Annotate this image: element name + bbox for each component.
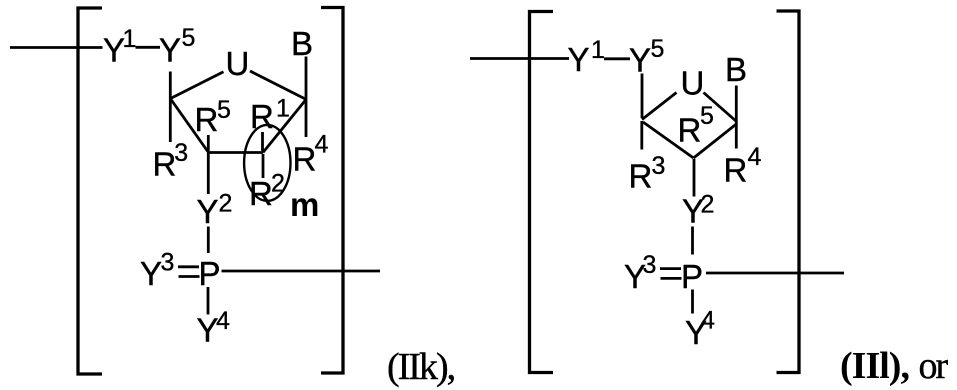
- svg-text:5: 5: [217, 96, 231, 124]
- svg-text:B: B: [725, 51, 747, 88]
- wire: bond B-C1'-R4 (structure 2): [735, 86, 738, 149]
- svg-text:1: 1: [591, 36, 605, 64]
- wire: bond C3'-Y2 (structure 2): [693, 159, 696, 197]
- atom label R5: [195, 96, 231, 138]
- atom label R5 (structure 2): [678, 102, 714, 148]
- atom label Y2 (structure 2): [682, 191, 714, 230]
- svg-text:Y: Y: [159, 32, 181, 69]
- svg-text:3: 3: [161, 248, 175, 276]
- atom label Y4: [197, 307, 231, 348]
- atom label Y2: [197, 190, 233, 230]
- svg-text:2: 2: [271, 169, 285, 197]
- atom label R3 (structure 2): [629, 152, 666, 195]
- svg-text:(IIk),: (IIk),: [387, 346, 455, 388]
- svg-text:2: 2: [701, 191, 715, 219]
- atom label R2: [249, 169, 285, 212]
- svg-text:R: R: [249, 175, 273, 212]
- svg-text:or: or: [919, 345, 949, 387]
- wire: ring bond C3'-C2': [208, 151, 263, 154]
- wire: bond C2'-R1: [261, 132, 264, 151]
- wire: bond C2'-R2: [262, 154, 265, 178]
- wire: ring bond C4'-C3' (structure 2): [643, 122, 694, 158]
- wire: bond C3'-Y2: [207, 153, 210, 194]
- svg-text:3: 3: [174, 139, 188, 167]
- svg-text:B: B: [291, 25, 313, 62]
- svg-text:Y: Y: [140, 255, 162, 292]
- wire: bond P-Y4: [207, 287, 210, 315]
- left bracket of formula IIk: [78, 8, 102, 374]
- atom label Y5 (structure 2): [629, 35, 664, 78]
- svg-text:R: R: [293, 140, 317, 177]
- wire: double bond Y3=P: [178, 267, 200, 277]
- svg-text:4: 4: [748, 143, 762, 171]
- svg-text:Y: Y: [197, 193, 219, 230]
- svg-text:Y: Y: [568, 41, 590, 78]
- wire: bond Y5-C4': [169, 72, 172, 99]
- svg-text:3: 3: [643, 251, 657, 279]
- svg-text:1: 1: [123, 25, 137, 53]
- svg-text:Y: Y: [629, 41, 651, 78]
- atom label Y1: [103, 25, 136, 69]
- atom label Y5: [159, 24, 195, 69]
- svg-text:(IIl),: (IIl),: [840, 345, 909, 387]
- ellipse repeat-unit loop around C2'-R2: [244, 125, 290, 201]
- svg-text:4: 4: [701, 307, 715, 335]
- wire: ring bond U-C1' (structure 2): [704, 93, 737, 122]
- svg-text:5: 5: [651, 35, 665, 63]
- wire: bond P to polymer backbone (structure 2): [706, 272, 844, 275]
- svg-text:3: 3: [652, 152, 666, 180]
- atom label Y3: [140, 248, 174, 292]
- wire: ring bond C4'-U: [170, 72, 224, 99]
- svg-text:R: R: [724, 151, 748, 188]
- svg-text:1: 1: [276, 95, 290, 123]
- wire: ring bond U-C1': [250, 71, 306, 100]
- svg-text:R: R: [153, 146, 177, 183]
- svg-text:P: P: [199, 255, 221, 292]
- svg-text:U: U: [226, 45, 250, 82]
- right bracket of formula IIl: [777, 11, 800, 373]
- wire: bond Y2-P: [207, 227, 210, 254]
- svg-text:5: 5: [700, 102, 714, 130]
- svg-text:R: R: [678, 111, 702, 148]
- atom label R1: [250, 95, 290, 136]
- wire: ring bond C2'-C1': [263, 100, 306, 153]
- svg-text:2: 2: [219, 190, 233, 218]
- svg-text:R: R: [250, 98, 274, 135]
- wire: polymer backbone bond into Y1 (structure 2): [470, 57, 569, 60]
- wire: bond Y1-Y5: [136, 46, 161, 49]
- wire: bond Y5-C4' (structure 2): [641, 74, 644, 119]
- svg-text:R: R: [629, 158, 653, 195]
- svg-text:U: U: [681, 65, 705, 102]
- wire: double bond Y3=P (structure 2): [660, 269, 682, 279]
- atom label Y3 (structure 2): [624, 251, 656, 295]
- svg-text:4: 4: [315, 131, 329, 159]
- left bracket of formula IIl: [530, 12, 554, 373]
- wire: bond B-C1'-R4: [305, 57, 308, 138]
- wire: bond C4'-R3 (structure 2): [640, 121, 643, 150]
- svg-text:m: m: [290, 186, 319, 223]
- atom label Y1 (structure 2): [568, 36, 605, 78]
- svg-text:5: 5: [182, 24, 196, 52]
- atom label Y4 (structure 2): [685, 307, 715, 352]
- wire: bond C3'-R5: [207, 135, 210, 151]
- right bracket of formula IIk: [321, 8, 343, 374]
- wire: ring bond C4'-U (structure 2): [642, 93, 677, 120]
- wire: ring bond C3'-C1' (structure 2): [694, 124, 738, 159]
- wire: bond P-Y4 (structure 2): [691, 290, 694, 314]
- wire: bond Y2-P (structure 2): [691, 227, 694, 255]
- atom label R4 (structure 2): [724, 143, 762, 188]
- wire: polymer backbone bond into Y1: [10, 46, 103, 49]
- wire: bond C4'-R3: [169, 99, 172, 143]
- svg-text:R: R: [195, 101, 219, 138]
- atom label R3: [153, 139, 189, 183]
- svg-text:4: 4: [216, 307, 230, 335]
- wire: bond P to polymer backbone: [222, 270, 381, 273]
- atom label R4: [293, 131, 329, 178]
- wire: bond Y1-Y5 (structure 2): [604, 57, 630, 60]
- svg-text:P: P: [681, 258, 703, 295]
- wire: ring bond C4'-C3': [170, 99, 208, 153]
